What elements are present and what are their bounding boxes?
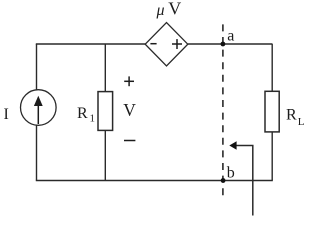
svg-text:1: 1 <box>90 113 96 125</box>
svg-text:R: R <box>77 105 88 122</box>
svg-text:a: a <box>227 28 234 45</box>
wire right vertical <box>271 44 273 181</box>
svg-text:b: b <box>227 164 235 181</box>
voltage label +V- across R1 <box>124 76 135 140</box>
node b <box>221 164 235 183</box>
svg-text:V: V <box>168 0 181 19</box>
svg-text:V: V <box>123 100 136 120</box>
current source I <box>4 90 57 126</box>
wire left vertical <box>36 44 38 181</box>
resistor R1 <box>77 92 113 131</box>
node a <box>221 28 235 47</box>
svg-text:μ: μ <box>156 2 165 19</box>
dashed terminal line <box>222 24 224 195</box>
svg-text:L: L <box>298 116 305 128</box>
wire R1 branch <box>104 44 106 181</box>
pointer arrow to terminal pair <box>229 141 253 215</box>
svg-text:R: R <box>286 107 297 124</box>
svg-text:I: I <box>4 106 9 123</box>
dependent source U1 (diamond mu-V) <box>145 23 188 67</box>
label mu V <box>156 0 182 19</box>
wire top left <box>36 43 146 45</box>
wire bottom <box>36 180 273 182</box>
wire top right <box>188 43 273 45</box>
resistor RL <box>265 91 305 132</box>
